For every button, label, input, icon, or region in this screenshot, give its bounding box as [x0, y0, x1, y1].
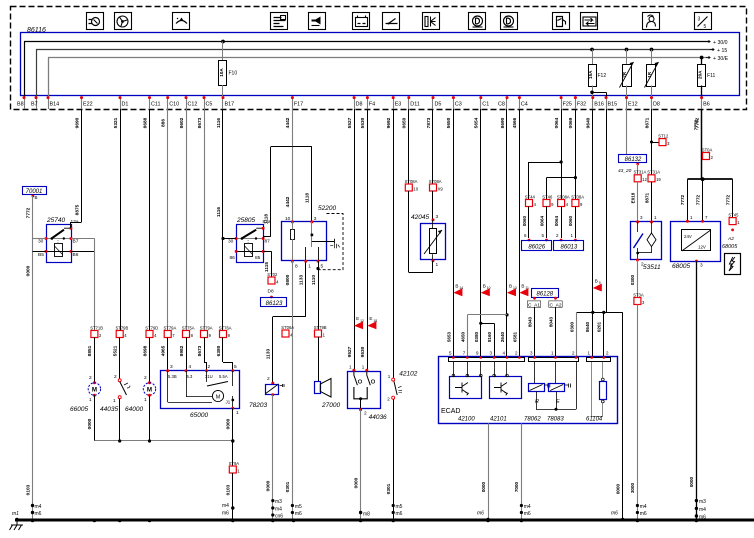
- wire 8982 to 65000 pin 4: [186, 338, 188, 371]
- 52200 pin 5: [317, 260, 320, 263]
- svg-text:3: 3: [698, 17, 701, 23]
- wire 6380 to 65000 pin 5: [222, 338, 224, 363]
- ECAD pin strip 3: [587, 358, 611, 362]
- wire E3 down: [393, 109, 395, 378]
- wire 1118 to 52200 pin 3: [311, 147, 313, 222]
- 52200 dashed section: [318, 214, 343, 270]
- svg-text:ST31A: ST31A: [634, 170, 647, 175]
- wire 44035 to ground bus: [119, 399, 121, 442]
- svg-text:7772: 7772: [695, 194, 700, 205]
- icon circ1: [469, 13, 486, 30]
- svg-text:7772: 7772: [680, 194, 685, 205]
- wire 0800 to ground m5 m6: [292, 330, 294, 520]
- svg-text:3000: 3000: [630, 482, 635, 493]
- connector ST71B: [91, 331, 98, 338]
- svg-text:4442: 4442: [285, 196, 291, 207]
- wire C10 to ST79A: [167, 109, 169, 331]
- wire 1133 from 52200 pin 1 to 78203: [305, 262, 307, 317]
- svg-text:ST0A: ST0A: [702, 147, 713, 152]
- svg-text:ST08A: ST08A: [571, 194, 584, 199]
- svg-text:68005: 68005: [722, 244, 738, 250]
- connector ST08A 9: [572, 200, 579, 207]
- connector ST9A: [229, 466, 236, 473]
- svg-text:ST9A: ST9A: [229, 461, 240, 466]
- 65000 internal wiring: [167, 371, 169, 402]
- connector ST79B 1: [315, 330, 322, 337]
- wire C8 to ECAD pin 4: [506, 109, 508, 356]
- svg-text:18: 18: [373, 319, 377, 323]
- connector pin B17: [222, 97, 224, 110]
- wire B17 through ST76A: [222, 109, 224, 331]
- svg-text:42102: 42102: [399, 371, 417, 378]
- wire B5 to ground wire: [33, 251, 47, 253]
- svg-text:8160: 8160: [487, 331, 492, 342]
- svg-text:86128: 86128: [536, 292, 553, 298]
- svg-text:m3: m3: [275, 499, 282, 505]
- connector pin D8: [651, 97, 653, 110]
- svg-text:886: 886: [161, 119, 167, 127]
- wire 8673 to 65000 pin 2: [204, 338, 206, 363]
- svg-text:61104: 61104: [586, 417, 603, 423]
- bus +30/0 left drop to B8: [24, 42, 26, 97]
- svg-text:F12: F12: [598, 73, 607, 79]
- svg-text:0000: 0000: [266, 480, 272, 491]
- wire C5 to ST79A 9: [204, 109, 206, 331]
- svg-text:1: 1: [236, 410, 239, 416]
- connector ST3A: [634, 298, 641, 305]
- svg-text:7772: 7772: [25, 207, 31, 218]
- node 86128 reference box: [532, 289, 559, 298]
- connector pin E12: [626, 97, 628, 110]
- wire 66005 to ground bus: [94, 395, 96, 441]
- svg-text:5.3B: 5.3B: [168, 374, 177, 379]
- svg-text:B16: B16: [594, 102, 604, 108]
- svg-text:1133: 1133: [299, 274, 305, 285]
- svg-text:0000: 0000: [25, 265, 31, 276]
- connector ST75A: [183, 331, 190, 338]
- svg-text:12: 12: [360, 319, 364, 323]
- svg-text:C8: C8: [498, 102, 505, 108]
- resistor 61104: [602, 362, 604, 378]
- svg-text:5.3: 5.3: [187, 374, 193, 379]
- ECU 86116 dashed boundary: [11, 7, 747, 110]
- svg-text:8851: 8851: [87, 345, 93, 356]
- svg-text:0064: 0064: [554, 215, 559, 226]
- svg-text:1116: 1116: [216, 118, 222, 128]
- svg-text:8690: 8690: [500, 117, 506, 128]
- svg-text:0103: 0103: [226, 484, 232, 495]
- svg-text:1116: 1116: [216, 207, 222, 217]
- switch unit 53511: [631, 222, 662, 260]
- svg-text:0800: 0800: [285, 274, 291, 285]
- connector pin B14: [48, 97, 50, 110]
- wire down to ST71B: [94, 238, 96, 330]
- svg-text:4566: 4566: [512, 117, 518, 128]
- svg-text:m6: m6: [477, 511, 484, 517]
- svg-text:8673: 8673: [197, 345, 203, 356]
- junction bar: [577, 312, 623, 314]
- svg-text:8043: 8043: [548, 316, 553, 327]
- svg-text:0380: 0380: [474, 331, 479, 342]
- wire 0060 to 86026 pin 6: [528, 207, 530, 239]
- 52200 internal resistor: [291, 230, 295, 240]
- svg-text:14: 14: [459, 286, 463, 290]
- junction E18 flag: [367, 321, 376, 329]
- svg-text:J1: J1: [226, 400, 231, 405]
- svg-text:9527: 9527: [347, 346, 353, 357]
- wire 7772 from 70001: [32, 196, 34, 239]
- svg-text:2: 2: [641, 262, 644, 268]
- svg-text:70001: 70001: [26, 189, 43, 195]
- svg-text:0000: 0000: [481, 481, 486, 492]
- svg-text:m4: m4: [222, 503, 229, 509]
- svg-text:2: 2: [144, 375, 147, 381]
- svg-text:1: 1: [89, 397, 92, 403]
- svg-text:m6: m6: [396, 511, 403, 517]
- svg-text:C10: C10: [169, 102, 179, 108]
- svg-text:A2: A2: [727, 236, 734, 242]
- svg-text:F4: F4: [369, 102, 375, 108]
- svg-text:0000: 0000: [226, 418, 232, 429]
- unit 65000 heater blower: [161, 371, 240, 409]
- wire E22 to relay 25740 pin 13a: [81, 109, 83, 222]
- svg-text:E12: E12: [628, 102, 638, 108]
- svg-text:D11: D11: [410, 102, 420, 108]
- PTC resistor at D8: [650, 48, 654, 52]
- ground rail: [15, 519, 754, 522]
- wire 7772 to 68005 pin 1: [687, 179, 689, 221]
- wire 0300 from 53511 pin 2: [637, 260, 639, 298]
- svg-text:30: 30: [38, 239, 44, 245]
- icon tool: [271, 13, 288, 30]
- wire F25 down: [561, 109, 563, 162]
- svg-text:7772: 7772: [725, 194, 730, 205]
- svg-text:ST79B: ST79B: [314, 325, 327, 330]
- svg-text:1110: 1110: [311, 275, 317, 285]
- svg-text:0064: 0064: [554, 117, 560, 128]
- svg-text:ST45: ST45: [728, 212, 739, 217]
- wire 1118 to relay 25805 pin 87: [270, 147, 272, 237]
- wire 0201 to ECAD pin 2: [603, 312, 605, 356]
- connector ST79A 9: [201, 331, 208, 338]
- connector pin C4: [519, 97, 521, 110]
- bus +30/E left drop to B14: [48, 58, 50, 97]
- connector pin D8: [354, 97, 356, 110]
- wire 42045 pin 1 loop to ST08A 10: [432, 261, 434, 273]
- svg-text:E: E: [369, 316, 372, 321]
- svg-text:ST75A: ST75A: [182, 325, 195, 330]
- wire 1110 from 52200 pin 5: [318, 261, 320, 330]
- wire D5 to ST08A X9: [432, 109, 434, 184]
- connector pin C8: [506, 97, 508, 110]
- svg-text:1: 1: [144, 397, 147, 403]
- svg-text:5527: 5527: [347, 117, 353, 128]
- wire D8 down to 44036: [354, 109, 356, 370]
- svg-text:F10: F10: [229, 71, 238, 77]
- svg-text:R: R: [535, 399, 539, 405]
- svg-text:E3: E3: [395, 102, 402, 108]
- svg-text:86132: 86132: [625, 157, 642, 163]
- svg-text:0069: 0069: [568, 117, 574, 128]
- wire F32 down: [575, 109, 577, 178]
- svg-text:8982: 8982: [179, 345, 185, 356]
- switch unit 44036: [348, 372, 381, 409]
- wire B16 to junction bar: [592, 109, 594, 312]
- feed bar: [687, 178, 732, 180]
- svg-text:4442: 4442: [285, 117, 291, 128]
- svg-text:42100: 42100: [458, 417, 475, 423]
- svg-text:5530: 5530: [360, 117, 366, 128]
- wire B17 tap to relay 25805 pin 30: [221, 237, 224, 240]
- svg-text:78083: 78083: [547, 417, 564, 423]
- svg-text:5521: 5521: [113, 345, 119, 356]
- svg-text:ST06A: ST06A: [281, 325, 294, 330]
- 65000 pin 1 to ground: [231, 407, 234, 410]
- svg-text:78203: 78203: [249, 402, 267, 409]
- wire to 42045 pin 3: [432, 191, 434, 220]
- icon bat: [353, 13, 370, 30]
- link F32 to ST46: [547, 177, 576, 179]
- svg-text:+ 15: + 15: [717, 48, 727, 54]
- svg-text:4: 4: [189, 364, 192, 370]
- connector pin F17: [292, 97, 294, 110]
- svg-text:2: 2: [89, 375, 92, 381]
- connector ST08A 4: [558, 200, 565, 207]
- node 70001 reference box: [23, 187, 47, 195]
- connector pin F4: [367, 97, 369, 110]
- svg-text:E: E: [356, 316, 359, 321]
- svg-text:0301: 0301: [386, 483, 392, 494]
- svg-text:ST31A: ST31A: [647, 170, 660, 175]
- ground link bus: [94, 440, 232, 442]
- svg-text:D5: D5: [435, 102, 442, 108]
- svg-text:m6: m6: [524, 511, 531, 517]
- connector ST79B: [116, 331, 123, 338]
- wire 7772 to ST45: [732, 179, 734, 217]
- svg-text:m4: m4: [699, 507, 706, 513]
- svg-text:B: B: [35, 195, 38, 200]
- svg-text:8640: 8640: [585, 321, 590, 332]
- svg-text:C4: C4: [521, 102, 528, 108]
- svg-text:B: B: [595, 279, 598, 284]
- svg-text:78062: 78062: [524, 417, 541, 423]
- connector ST79D: [146, 331, 153, 338]
- svg-text:2: 2: [208, 364, 211, 370]
- connector pin B8: [24, 97, 26, 110]
- wire C11 to ST79D: [149, 109, 151, 331]
- svg-text:1133: 1133: [266, 348, 272, 359]
- icon circ2: [501, 13, 518, 30]
- svg-text:30: 30: [228, 239, 234, 245]
- svg-text:F32: F32: [577, 102, 586, 108]
- connector ST45: [729, 218, 736, 225]
- connector pin C11: [149, 97, 151, 110]
- connector ST31A 12: [634, 175, 641, 182]
- wire C1 to ECAD pin 9: [480, 109, 482, 356]
- wire 0064 to 86013 pin 2: [561, 207, 563, 239]
- wire 64000 to ground bus: [149, 395, 151, 441]
- svg-text:8698: 8698: [142, 345, 148, 356]
- svg-text:M: M: [216, 395, 221, 401]
- svg-text:8043: 8043: [527, 316, 532, 327]
- ECAD pin strip 2: [529, 358, 579, 362]
- svg-text:M: M: [92, 386, 97, 393]
- svg-text:B8: B8: [17, 102, 24, 108]
- svg-text:5653: 5653: [446, 331, 451, 342]
- wire 30 to 7772: [33, 238, 47, 240]
- wire 78203 to ground m3 m4 m6: [272, 395, 274, 520]
- svg-text:B: B: [509, 283, 512, 288]
- connector pin F32: [575, 97, 577, 110]
- bus +30/E: [48, 57, 709, 59]
- connector ST79A: [164, 331, 171, 338]
- svg-text:ST79D: ST79D: [145, 325, 158, 330]
- 65000 internal motor: [212, 390, 223, 401]
- diode 78062: [534, 362, 536, 384]
- wire to ground m4 m6: [637, 305, 639, 520]
- wire 7772 to 68005 pin 7: [702, 179, 704, 221]
- wire F17 down: [292, 109, 294, 147]
- svg-text:5: 5: [321, 264, 324, 270]
- svg-text:87: 87: [265, 239, 271, 245]
- svg-text:8875: 8875: [75, 204, 81, 215]
- ECAD ground wire m6: [488, 423, 490, 519]
- svg-text:7772: 7772: [694, 119, 700, 130]
- svg-text:ST79B: ST79B: [116, 325, 129, 330]
- wire 8043 C_A1: [534, 307, 536, 356]
- wire 5521 to switch 44035: [119, 338, 121, 380]
- svg-text:+ 30/0: + 30/0: [713, 40, 728, 46]
- svg-text:F11: F11: [707, 73, 715, 79]
- connector pin B16: [592, 97, 594, 110]
- svg-text:9530: 9530: [360, 346, 366, 357]
- svg-text:4650: 4650: [460, 331, 465, 342]
- connector pin E22: [81, 97, 83, 110]
- connector ST06A: [282, 330, 289, 337]
- wire 4442 to 52200 pin 10: [292, 147, 294, 222]
- svg-text:2: 2: [267, 376, 270, 382]
- svg-text:M: M: [147, 386, 152, 393]
- svg-text:0000: 0000: [87, 418, 93, 429]
- wire to horn 27000: [318, 337, 320, 382]
- svg-text:44036: 44036: [369, 414, 387, 421]
- svg-text:0000: 0000: [689, 476, 694, 487]
- PTC resistor at E12: [625, 48, 629, 52]
- wire 0060 to 86013 pin 1: [575, 207, 577, 239]
- node 86013 reference box: [554, 241, 584, 251]
- svg-text:5654: 5654: [474, 117, 480, 128]
- svg-text:6581: 6581: [512, 331, 517, 342]
- svg-text:66005: 66005: [70, 406, 88, 413]
- svg-text:F25: F25: [563, 102, 572, 108]
- svg-text:B: B: [455, 283, 458, 288]
- wire 4965 to 65000 pin 3: [167, 338, 169, 371]
- svg-text:8671: 8671: [644, 117, 650, 128]
- svg-text:4965: 4965: [161, 345, 167, 356]
- svg-text:10: 10: [487, 286, 491, 290]
- svg-text:0060: 0060: [522, 215, 527, 226]
- svg-text:ST76A: ST76A: [219, 325, 232, 330]
- icon arr: [581, 13, 598, 30]
- connector pin C12: [186, 97, 188, 110]
- svg-text:m6: m6: [611, 511, 618, 517]
- svg-text:2: 2: [364, 411, 367, 417]
- svg-text:ST44: ST44: [525, 194, 536, 199]
- wire E018 to ST31A 12: [637, 164, 639, 175]
- wire E018: [637, 182, 639, 222]
- svg-text:1: 1: [113, 398, 116, 404]
- svg-text:ST12: ST12: [658, 133, 669, 138]
- diode 78083: [555, 362, 557, 384]
- svg-text:1115: 1115: [264, 262, 270, 272]
- svg-text:D8: D8: [653, 102, 660, 108]
- svg-text:ST46: ST46: [542, 194, 553, 199]
- fuse F11 20A: [700, 56, 704, 60]
- converter 68005: [671, 222, 721, 262]
- svg-text:m8: m8: [363, 512, 370, 518]
- horn 27000: [315, 382, 321, 394]
- svg-text:D8: D8: [268, 289, 274, 295]
- svg-text:B: B: [521, 283, 524, 288]
- svg-text:ST79A: ST79A: [200, 325, 213, 330]
- connector pin D5: [432, 97, 434, 110]
- svg-text:m6: m6: [640, 511, 647, 517]
- wire 0000 to ground m4/m6: [32, 239, 34, 520]
- icon horn: [309, 13, 326, 30]
- svg-text:B7: B7: [73, 239, 79, 245]
- svg-text:B17: B17: [225, 102, 235, 108]
- svg-text:B15: B15: [608, 102, 618, 108]
- connector pin E3: [393, 97, 395, 110]
- icon fan: [115, 13, 132, 30]
- connector pin C10: [167, 97, 169, 110]
- svg-text:D8: D8: [356, 102, 363, 108]
- svg-text:C12: C12: [188, 102, 198, 108]
- svg-text:5.5A: 5.5A: [219, 374, 228, 379]
- svg-text:6380: 6380: [216, 345, 222, 356]
- svg-text:5650: 5650: [446, 117, 452, 128]
- svg-text:19: 19: [656, 177, 661, 182]
- icon fuel: [553, 13, 570, 30]
- svg-text:ST79A: ST79A: [164, 325, 177, 330]
- svg-text:43_20: 43_20: [618, 168, 632, 174]
- svg-text:8602: 8602: [179, 117, 185, 128]
- transistor 42100: [450, 377, 482, 399]
- svg-text:2: 2: [114, 374, 117, 380]
- svg-text:9: 9: [599, 281, 601, 285]
- wire relay 25740 pin B6: [71, 251, 94, 253]
- wire D8 to ST31A 19: [651, 109, 653, 175]
- svg-text:11: 11: [525, 286, 529, 290]
- svg-text:m4: m4: [275, 507, 282, 513]
- svg-text:B5: B5: [38, 252, 44, 258]
- svg-text:m4: m4: [524, 504, 531, 510]
- svg-text:C1: C1: [482, 102, 489, 108]
- connector ST12: [659, 139, 666, 146]
- branch C8 gray to pin 7: [467, 314, 507, 316]
- wire F4 down to 44036: [367, 109, 369, 370]
- svg-text:ST02: ST02: [267, 272, 278, 277]
- connector pin C3: [453, 97, 455, 110]
- svg-text:86026: 86026: [528, 245, 545, 251]
- svg-text:ST3A: ST3A: [633, 292, 644, 297]
- svg-text:ST08A: ST08A: [429, 179, 442, 184]
- ECAD internal ground bus: [536, 392, 538, 410]
- transistor 42101: [490, 377, 522, 399]
- svg-text:68005: 68005: [672, 263, 690, 270]
- ECAD ground wire m4 m6: [521, 423, 523, 519]
- svg-text:1: 1: [436, 262, 439, 268]
